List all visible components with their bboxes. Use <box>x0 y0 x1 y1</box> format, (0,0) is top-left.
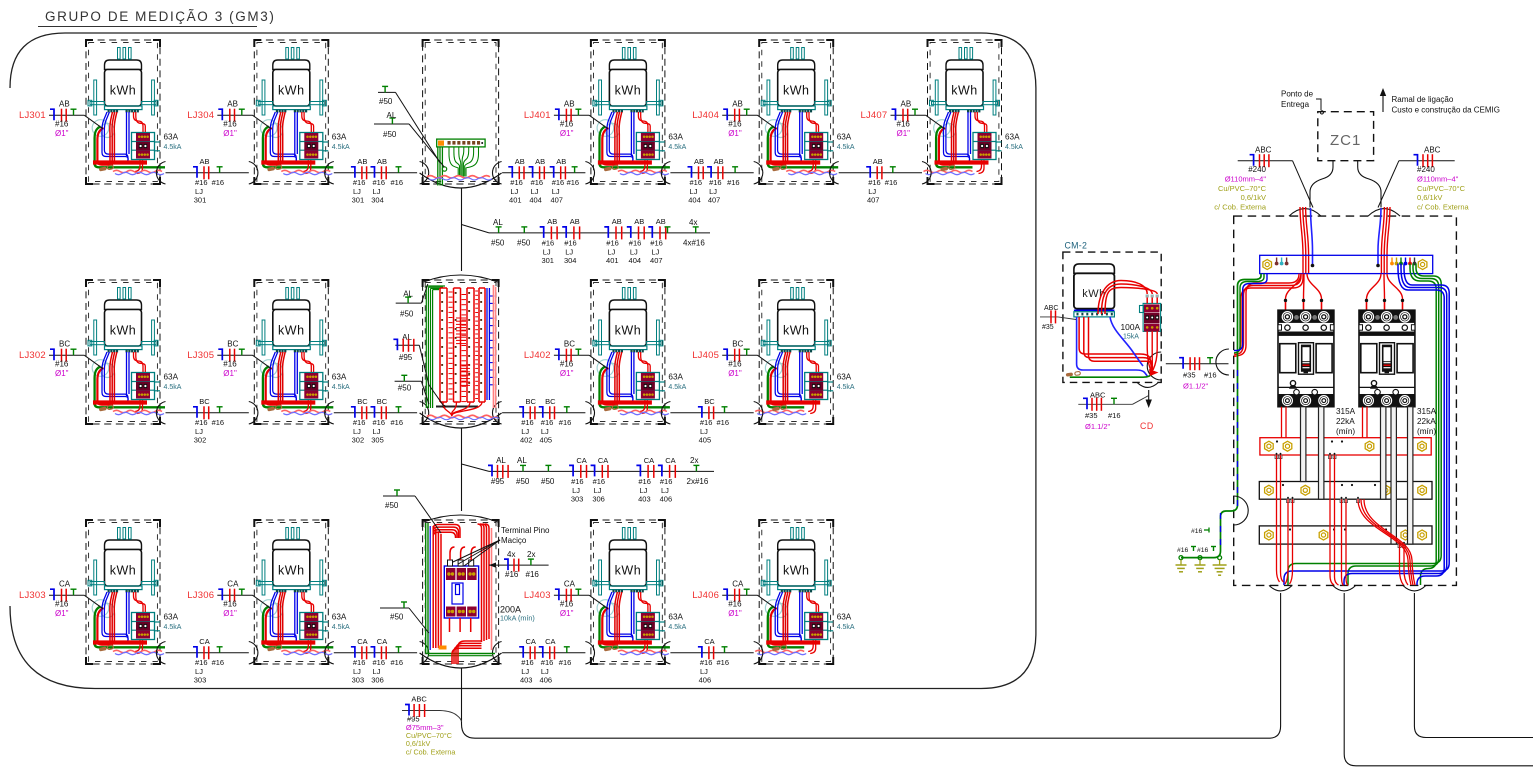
svg-text:#16: #16 <box>1204 371 1217 380</box>
svg-text:AB: AB <box>377 157 387 166</box>
svg-text:LJ401: LJ401 <box>524 110 551 121</box>
svg-text:63A: 63A <box>668 613 683 622</box>
svg-text:#240: #240 <box>1248 165 1266 174</box>
svg-text:#16: #16 <box>223 120 237 129</box>
svg-text:Maciço: Maciço <box>501 536 527 545</box>
svg-text:CA: CA <box>644 456 654 465</box>
left service drop ABC #240 <box>1214 146 1313 212</box>
svg-text:AB: AB <box>227 100 238 109</box>
junction box row3 (contactor 200A) <box>420 515 550 668</box>
svg-text:4.5kA: 4.5kA <box>332 624 350 631</box>
svg-text:ABC: ABC <box>411 695 427 704</box>
junction box row1 (green earth comb) <box>420 40 502 188</box>
svg-text:CA: CA <box>377 637 387 646</box>
svg-text:LJ406: LJ406 <box>692 590 719 601</box>
svg-text:#50: #50 <box>379 97 393 106</box>
svg-text:#16: #16 <box>868 178 881 187</box>
feed label LJ304 <box>187 100 271 139</box>
svg-text:#16: #16 <box>564 239 577 248</box>
svg-text:#16: #16 <box>606 239 619 248</box>
svg-text:4.5kA: 4.5kA <box>837 624 855 631</box>
svg-text:63A: 63A <box>332 373 347 382</box>
feeder stubs row1 <box>374 86 445 167</box>
svg-text:407: 407 <box>708 195 721 204</box>
meter LJ304 <box>249 40 350 184</box>
svg-text:402: 402 <box>520 435 533 444</box>
svg-text:0,6/1kV: 0,6/1kV <box>1417 193 1442 202</box>
svg-text:#16: #16 <box>223 600 237 609</box>
inter-row bus 2 <box>462 456 715 504</box>
svg-text:Ø1": Ø1" <box>560 129 574 138</box>
svg-text:#16: #16 <box>559 418 572 427</box>
meter LJ303 <box>86 520 182 664</box>
svg-text:kWh: kWh <box>110 324 137 338</box>
meter LJ306 <box>249 520 350 664</box>
svg-text:ABC: ABC <box>1255 146 1272 155</box>
svg-text:CA: CA <box>545 637 555 646</box>
svg-text:#16: #16 <box>560 120 574 129</box>
svg-text:#16: #16 <box>391 658 404 667</box>
svg-text:CA: CA <box>199 637 209 646</box>
main panel dashed box <box>1234 216 1457 585</box>
svg-text:63A: 63A <box>837 133 852 142</box>
svg-text:GRUPO DE MEDIÇÃO 3 (GM3): GRUPO DE MEDIÇÃO 3 (GM3) <box>45 9 275 24</box>
panel bottom exits <box>1269 585 1292 591</box>
bus segment row3 seg1 <box>166 637 249 685</box>
bus segment row2 seg3 <box>502 397 585 445</box>
svg-text:AB: AB <box>556 157 566 166</box>
svg-text:2x: 2x <box>527 550 535 559</box>
svg-text:406: 406 <box>699 675 712 684</box>
feed label LJ404 <box>692 100 776 139</box>
svg-text:LJ303: LJ303 <box>19 590 46 601</box>
svg-text:#16: #16 <box>55 120 69 129</box>
svg-text:Custo e construção da CEMIG: Custo e construção da CEMIG <box>1392 106 1501 115</box>
svg-text:2x: 2x <box>690 456 698 465</box>
svg-text:#16: #16 <box>521 418 534 427</box>
bus link bars below breakers <box>1301 407 1413 544</box>
svg-text:AB: AB <box>694 157 704 166</box>
svg-text:AB: AB <box>714 157 724 166</box>
svg-text:Ponto de: Ponto de <box>1281 90 1314 99</box>
meter LJ403 <box>585 520 686 664</box>
red feeders busbar to breakers <box>1284 274 1404 311</box>
svg-text:#50: #50 <box>491 239 505 248</box>
svg-text:4.5kA: 4.5kA <box>1005 144 1023 151</box>
svg-text:#16: #16 <box>700 658 713 667</box>
bus segment row1 seg5 <box>839 157 922 205</box>
svg-text:63A: 63A <box>332 133 347 142</box>
svg-text:303: 303 <box>352 675 365 684</box>
svg-text:Ø110mm–4": Ø110mm–4" <box>1417 175 1459 184</box>
bus segment row2 seg4 <box>670 397 753 445</box>
svg-text:304: 304 <box>371 195 384 204</box>
svg-text:#16: #16 <box>571 477 584 486</box>
svg-text:LJ405: LJ405 <box>692 350 719 361</box>
svg-text:4x#16: 4x#16 <box>683 239 705 248</box>
svg-text:kWh: kWh <box>615 564 642 578</box>
svg-text:(mín): (mín) <box>1417 427 1436 436</box>
right side green/blue bundles <box>1284 264 1449 586</box>
svg-text:4.5kA: 4.5kA <box>668 624 686 631</box>
svg-text:63A: 63A <box>668 373 683 382</box>
svg-text:#50: #50 <box>385 501 399 510</box>
svg-text:BC: BC <box>199 397 210 406</box>
svg-text:#16: #16 <box>897 120 911 129</box>
title <box>38 9 275 27</box>
svg-text:404: 404 <box>629 256 642 265</box>
svg-text:#16: #16 <box>541 418 554 427</box>
svg-text:#16: #16 <box>526 570 540 579</box>
svg-text:AB: AB <box>199 157 209 166</box>
CM-2 to panel bus <box>1166 357 1229 390</box>
svg-text:407: 407 <box>650 256 663 265</box>
meter LJ402 <box>585 280 686 424</box>
enclosure GM3 rounded border <box>10 33 1036 689</box>
svg-text:304: 304 <box>564 256 577 265</box>
svg-text:306: 306 <box>371 675 384 684</box>
svg-text:#16: #16 <box>709 178 722 187</box>
box CM-2 <box>1040 241 1229 388</box>
svg-text:LJ306: LJ306 <box>187 590 214 601</box>
Ponto de Entrega label <box>1281 90 1324 115</box>
feed label LJ303 <box>19 580 103 619</box>
svg-text:#16: #16 <box>1191 528 1203 535</box>
svg-text:#50: #50 <box>383 130 397 139</box>
svg-text:302: 302 <box>352 435 365 444</box>
svg-text:#16: #16 <box>660 477 673 486</box>
exit drop lines to street <box>1269 593 1281 738</box>
svg-text:AB: AB <box>873 157 883 166</box>
service wires to CM-2 (left loop) <box>1234 274 1303 357</box>
svg-text:kWh: kWh <box>278 564 305 578</box>
svg-text:#16: #16 <box>195 178 208 187</box>
svg-text:#16: #16 <box>541 658 554 667</box>
svg-text:305: 305 <box>371 435 384 444</box>
entry bells <box>1289 209 1321 217</box>
svg-text:407: 407 <box>550 195 563 204</box>
svg-text:AB: AB <box>634 217 644 226</box>
svg-text:Ø1": Ø1" <box>728 369 742 378</box>
riser from row1 box to row2 box <box>461 189 463 272</box>
bus segment row2 seg1 <box>166 397 249 445</box>
svg-text:407: 407 <box>867 195 880 204</box>
svg-text:AB: AB <box>535 157 545 166</box>
svg-text:22kA: 22kA <box>1336 417 1355 426</box>
svg-text:#16: #16 <box>700 418 713 427</box>
neutral busbar (blue) <box>1260 255 1433 273</box>
svg-text:4x: 4x <box>507 550 515 559</box>
svg-text:BC: BC <box>704 397 715 406</box>
svg-text:#16: #16 <box>391 418 404 427</box>
svg-text:CA: CA <box>598 456 608 465</box>
svg-text:CA: CA <box>732 580 744 589</box>
feeder stubs row2 <box>393 284 444 406</box>
svg-text:Ø1": Ø1" <box>897 129 911 138</box>
svg-text:c/ Cob. Externa: c/ Cob. Externa <box>1417 203 1470 212</box>
svg-text:306: 306 <box>592 495 605 504</box>
svg-text:#16: #16 <box>212 658 225 667</box>
svg-text:Ø110mm–4": Ø110mm–4" <box>1225 175 1267 184</box>
svg-text:63A: 63A <box>837 373 852 382</box>
svg-text:#35: #35 <box>1183 371 1196 380</box>
junction box row2 (distribution block) <box>420 275 502 428</box>
Ramal de ligacao note <box>1380 88 1500 115</box>
svg-text:(mín): (mín) <box>1336 427 1355 436</box>
svg-text:CD: CD <box>1140 421 1154 431</box>
svg-text:#16: #16 <box>1108 411 1121 420</box>
svg-text:4.5kA: 4.5kA <box>837 384 855 391</box>
svg-text:LJ402: LJ402 <box>524 350 551 361</box>
svg-text:Entrega: Entrega <box>1281 100 1310 109</box>
svg-text:kWh: kWh <box>951 84 978 98</box>
svg-text:ABC: ABC <box>1090 391 1106 400</box>
bus segment row1 seg3 <box>502 157 585 205</box>
svg-text:#16: #16 <box>559 658 572 667</box>
svg-text:4.5kA: 4.5kA <box>837 144 855 151</box>
phase busbars <box>1259 438 1432 544</box>
incoming bundles to busbar <box>1300 207 1390 274</box>
svg-text:#16: #16 <box>195 418 208 427</box>
box ZC1 <box>1318 112 1374 161</box>
svg-text:63A: 63A <box>164 373 179 382</box>
svg-text:#16: #16 <box>373 658 386 667</box>
meter LJ302 <box>86 280 182 424</box>
svg-text:#50: #50 <box>398 383 412 392</box>
feed label LJ401 <box>524 100 608 139</box>
svg-text:CA: CA <box>665 456 675 465</box>
svg-text:#16: #16 <box>542 239 555 248</box>
svg-text:CM-2: CM-2 <box>1065 241 1088 251</box>
svg-text:2x#16: 2x#16 <box>687 477 709 486</box>
feed label LJ406 <box>692 580 776 619</box>
svg-text:#50: #50 <box>517 239 531 248</box>
feed label LJ301 <box>19 100 103 139</box>
svg-text:#16: #16 <box>728 120 742 129</box>
feed label LJ403 <box>524 580 608 619</box>
svg-text:Cu/PVC–70°C: Cu/PVC–70°C <box>1417 184 1466 193</box>
svg-text:AB: AB <box>732 100 743 109</box>
svg-text:63A: 63A <box>164 613 179 622</box>
svg-text:#16: #16 <box>629 239 642 248</box>
svg-text:#16: #16 <box>650 239 663 248</box>
svg-text:#16: #16 <box>560 360 574 369</box>
bottom riser and cable spec <box>402 668 1269 757</box>
svg-text:15kA: 15kA <box>1123 334 1139 341</box>
svg-text:#16: #16 <box>885 178 898 187</box>
svg-text:#16: #16 <box>510 178 523 187</box>
svg-text:kWh: kWh <box>783 84 810 98</box>
svg-text:BC: BC <box>564 340 575 349</box>
svg-text:LJ404: LJ404 <box>692 110 719 121</box>
svg-text:#16: #16 <box>531 178 544 187</box>
svg-text:315A: 315A <box>1417 407 1437 416</box>
inter-row bus 1 <box>462 217 711 265</box>
svg-text:LJ407: LJ407 <box>861 110 888 121</box>
svg-text:401: 401 <box>606 256 619 265</box>
svg-text:301: 301 <box>541 256 554 265</box>
svg-text:#16: #16 <box>1197 547 1209 554</box>
svg-text:#16: #16 <box>195 658 208 667</box>
meter LJ404 <box>754 40 855 184</box>
svg-text:301: 301 <box>352 195 365 204</box>
svg-text:#16: #16 <box>212 178 225 187</box>
feed label LJ407 <box>861 100 945 139</box>
svg-text:63A: 63A <box>668 133 683 142</box>
svg-text:Ø1": Ø1" <box>55 129 69 138</box>
svg-text:#16: #16 <box>391 178 404 187</box>
svg-text:CA: CA <box>59 580 71 589</box>
left edge green/blue verticals <box>1181 274 1267 558</box>
svg-text:AL: AL <box>387 111 397 120</box>
svg-text:10kA (mín): 10kA (mín) <box>500 614 535 623</box>
svg-text:302: 302 <box>194 435 207 444</box>
feed label LJ405 <box>692 340 776 379</box>
svg-text:#16: #16 <box>593 477 606 486</box>
svg-text:AL: AL <box>517 456 527 465</box>
svg-text:#50: #50 <box>390 613 404 622</box>
svg-text:Ø1.1/2": Ø1.1/2" <box>1085 422 1111 431</box>
svg-text:#16: #16 <box>353 418 366 427</box>
svg-text:4x: 4x <box>689 218 697 227</box>
svg-text:c/ Cob. Externa: c/ Cob. Externa <box>406 748 456 757</box>
svg-text:#16: #16 <box>212 418 225 427</box>
svg-text:#95: #95 <box>491 477 505 486</box>
panel left wall conduit arc <box>1234 496 1249 525</box>
svg-text:Ø1": Ø1" <box>728 609 742 618</box>
svg-text:404: 404 <box>688 195 701 204</box>
svg-text:#16: #16 <box>727 178 740 187</box>
svg-text:Ø1.1/2": Ø1.1/2" <box>1183 382 1209 391</box>
svg-text:ZC1: ZC1 <box>1330 132 1361 149</box>
svg-text:CA: CA <box>576 456 586 465</box>
svg-text:BC: BC <box>357 397 368 406</box>
svg-text:63A: 63A <box>837 613 852 622</box>
svg-text:BC: BC <box>732 340 743 349</box>
svg-text:#35: #35 <box>1042 324 1054 331</box>
svg-text:AB: AB <box>515 157 525 166</box>
svg-text:403: 403 <box>638 495 651 504</box>
svg-text:401: 401 <box>509 195 522 204</box>
svg-text:#16: #16 <box>717 658 730 667</box>
svg-text:ABC: ABC <box>1424 146 1441 155</box>
bus segment row3 seg3 <box>502 637 585 685</box>
svg-text:315A: 315A <box>1336 407 1356 416</box>
svg-text:#16: #16 <box>373 418 386 427</box>
svg-text:AL: AL <box>493 218 503 227</box>
svg-text:Ø1": Ø1" <box>223 369 237 378</box>
red drop wires to exits <box>1275 453 1415 586</box>
svg-text:#16: #16 <box>560 600 574 609</box>
breaker Q1 315A <box>1278 310 1334 407</box>
svg-text:kWh: kWh <box>278 84 305 98</box>
red links breaker bottoms to red bus <box>1282 407 1368 438</box>
svg-text:0,6/1kV: 0,6/1kV <box>1241 193 1266 202</box>
breaker Q2 315A <box>1359 310 1415 407</box>
bus segment row1 seg2 <box>334 157 417 205</box>
svg-text:AB: AB <box>901 100 912 109</box>
svg-text:#16: #16 <box>55 360 69 369</box>
svg-text:406: 406 <box>660 495 673 504</box>
svg-text:#35: #35 <box>1085 411 1098 420</box>
meter LJ405 <box>754 280 855 424</box>
svg-text:63A: 63A <box>164 133 179 142</box>
feed label LJ402 <box>524 340 608 379</box>
riser row2 to row3 <box>461 429 463 512</box>
svg-text:AL: AL <box>496 456 506 465</box>
svg-text:CA: CA <box>227 580 239 589</box>
svg-text:63A: 63A <box>1005 133 1020 142</box>
svg-text:#16: #16 <box>55 600 69 609</box>
svg-text:LJ304: LJ304 <box>187 110 214 121</box>
svg-text:405: 405 <box>699 435 712 444</box>
svg-text:c/ Cob. Externa: c/ Cob. Externa <box>1214 203 1267 212</box>
svg-text:AB: AB <box>570 217 580 226</box>
svg-text:Ø1": Ø1" <box>560 369 574 378</box>
bus segment row3 seg4 <box>670 637 753 685</box>
svg-text:#16: #16 <box>717 418 730 427</box>
svg-text:kWh: kWh <box>110 84 137 98</box>
svg-text:#16: #16 <box>353 178 366 187</box>
svg-text:AB: AB <box>547 217 557 226</box>
svg-text:AB: AB <box>612 217 622 226</box>
svg-text:#16: #16 <box>223 360 237 369</box>
bus segment row1 seg1 <box>166 157 249 205</box>
bus segment row3 seg2 <box>334 637 417 685</box>
svg-text:405: 405 <box>540 435 553 444</box>
svg-text:#95: #95 <box>399 353 413 362</box>
meter LJ406 <box>754 520 855 664</box>
svg-text:#16: #16 <box>567 178 580 187</box>
svg-text:406: 406 <box>540 675 553 684</box>
svg-text:BC: BC <box>227 340 238 349</box>
meter LJ407 <box>922 40 1023 184</box>
svg-text:#16: #16 <box>505 570 519 579</box>
svg-text:403: 403 <box>520 675 533 684</box>
meter LJ401 <box>585 40 686 184</box>
svg-text:BC: BC <box>59 340 70 349</box>
svg-text:CA: CA <box>564 580 576 589</box>
svg-text:kWh: kWh <box>110 564 137 578</box>
svg-text:#16: #16 <box>521 658 534 667</box>
svg-text:LJ305: LJ305 <box>187 350 214 361</box>
ZC1 stubs <box>1310 161 1381 208</box>
svg-text:100A: 100A <box>1121 322 1141 332</box>
svg-text:Terminal Pino: Terminal Pino <box>501 526 550 535</box>
svg-text:AB: AB <box>59 100 70 109</box>
right service drop ABC #240 <box>1378 146 1470 212</box>
svg-text:kWh: kWh <box>783 324 810 338</box>
svg-text:Ø1": Ø1" <box>560 609 574 618</box>
svg-text:Ø1": Ø1" <box>55 609 69 618</box>
bus segment row1 seg4 <box>670 157 753 205</box>
feed label LJ306 <box>187 580 271 619</box>
svg-text:22kA: 22kA <box>1417 417 1436 426</box>
svg-text:4.5kA: 4.5kA <box>332 144 350 151</box>
feed label LJ302 <box>19 340 103 379</box>
svg-text:Cu/PVC–70°C: Cu/PVC–70°C <box>1218 184 1267 193</box>
svg-text:303: 303 <box>194 675 207 684</box>
svg-text:CA: CA <box>357 637 367 646</box>
svg-text:BC: BC <box>377 397 388 406</box>
svg-text:63A: 63A <box>332 613 347 622</box>
svg-text:Ø1": Ø1" <box>223 609 237 618</box>
svg-text:Ø1": Ø1" <box>728 129 742 138</box>
svg-text:#50: #50 <box>400 310 414 319</box>
svg-text:#16: #16 <box>353 658 366 667</box>
svg-text:#16: #16 <box>638 477 651 486</box>
svg-text:4.5kA: 4.5kA <box>668 384 686 391</box>
